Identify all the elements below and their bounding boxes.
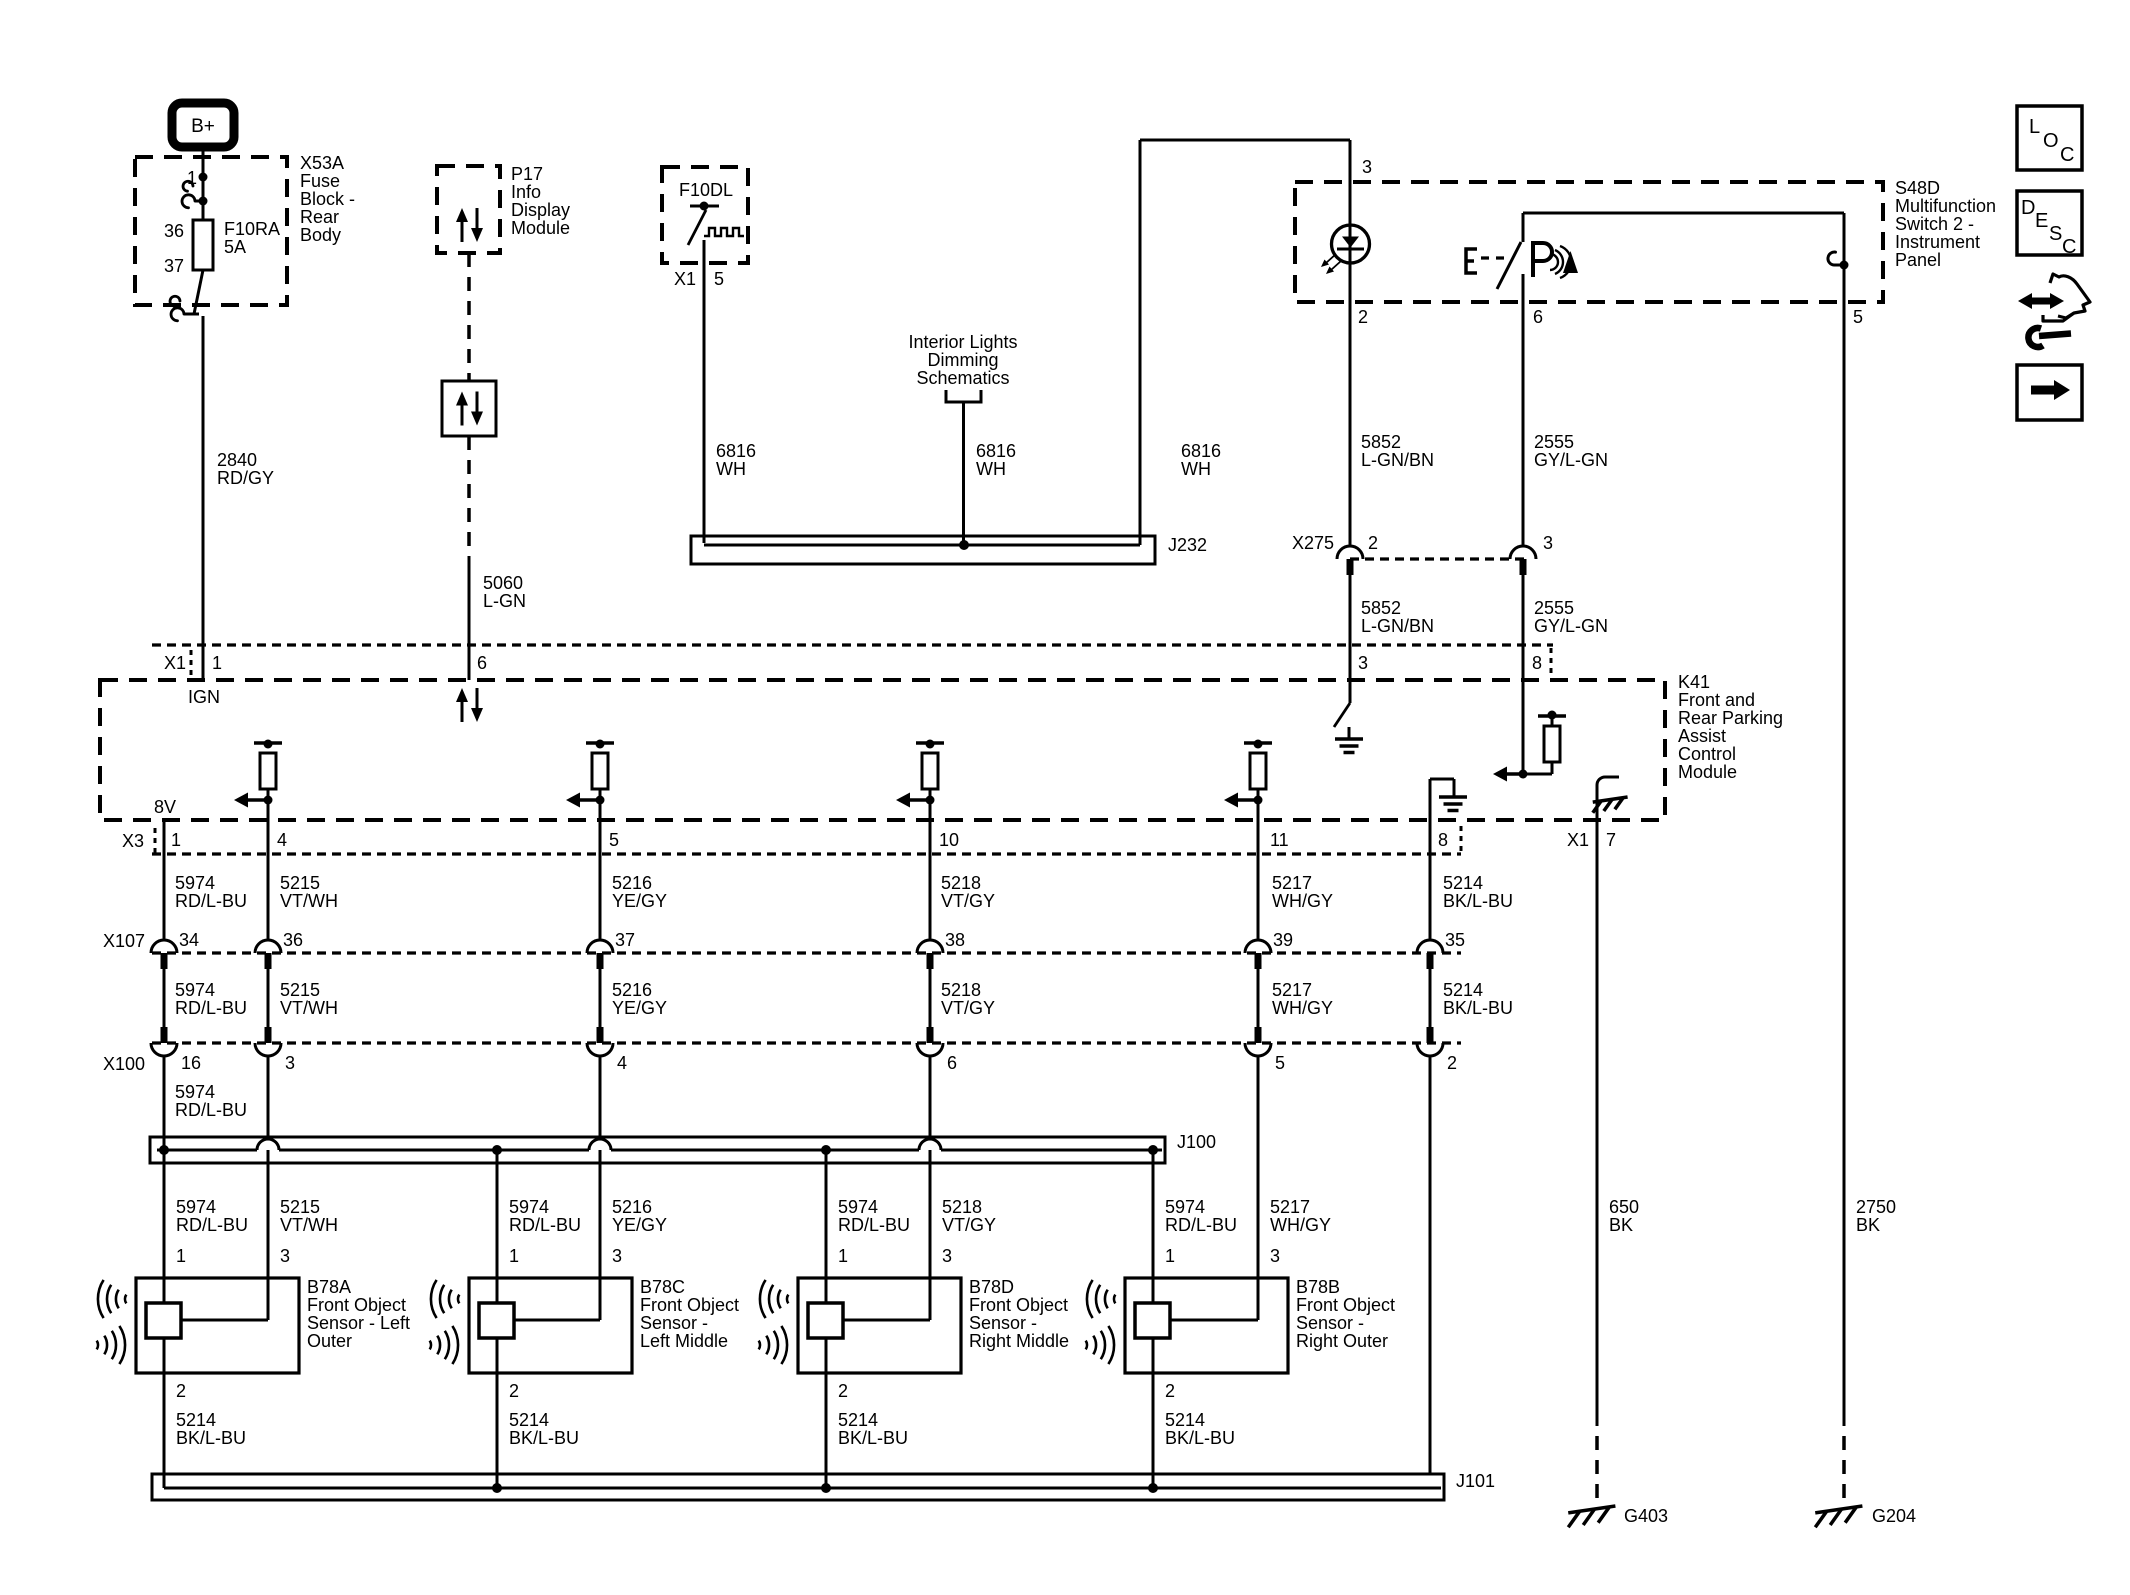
- svg-text:3: 3: [280, 1246, 290, 1266]
- svg-text:WH: WH: [976, 459, 1006, 479]
- svg-text:5217: 5217: [1272, 873, 1312, 893]
- svg-text:1: 1: [509, 1246, 519, 1266]
- svg-text:5214: 5214: [176, 1410, 216, 1430]
- svg-text:D: D: [2021, 197, 2035, 219]
- svg-text:BK: BK: [1856, 1215, 1880, 1235]
- svg-text:2: 2: [176, 1381, 186, 1401]
- svg-text:C: C: [2062, 236, 2076, 258]
- svg-text:L-GN/BN: L-GN/BN: [1361, 450, 1434, 470]
- svg-text:6: 6: [477, 653, 487, 673]
- svg-text:5: 5: [1275, 1053, 1285, 1073]
- svg-text:Front and: Front and: [1678, 690, 1755, 710]
- svg-text:Left Middle: Left Middle: [640, 1331, 728, 1351]
- svg-text:C: C: [2060, 144, 2074, 166]
- svg-text:6: 6: [1533, 307, 1543, 327]
- svg-text:5: 5: [1853, 307, 1863, 327]
- svg-text:YE/GY: YE/GY: [612, 998, 667, 1018]
- svg-text:5214: 5214: [838, 1410, 878, 1430]
- svg-text:8V: 8V: [154, 797, 176, 817]
- svg-text:O: O: [2043, 130, 2059, 152]
- svg-text:5974: 5974: [176, 1197, 216, 1217]
- svg-text:1: 1: [212, 653, 222, 673]
- svg-text:BK/L-BU: BK/L-BU: [176, 1428, 246, 1448]
- svg-text:2: 2: [509, 1381, 519, 1401]
- svg-text:39: 39: [1273, 930, 1293, 950]
- svg-text:X275: X275: [1292, 533, 1334, 553]
- svg-text:YE/GY: YE/GY: [612, 891, 667, 911]
- svg-text:7: 7: [1606, 830, 1616, 850]
- svg-text:5A: 5A: [224, 237, 246, 257]
- svg-text:5214: 5214: [509, 1410, 549, 1430]
- svg-text:35: 35: [1445, 930, 1465, 950]
- svg-text:Front Object: Front Object: [640, 1295, 739, 1315]
- svg-text:Interior Lights: Interior Lights: [908, 332, 1017, 352]
- svg-text:5214: 5214: [1165, 1410, 1205, 1430]
- svg-text:E: E: [2035, 210, 2048, 232]
- svg-text:Info: Info: [511, 182, 541, 202]
- svg-text:3: 3: [612, 1246, 622, 1266]
- svg-text:RD/L-BU: RD/L-BU: [838, 1215, 910, 1235]
- svg-text:Schematics: Schematics: [916, 368, 1009, 388]
- svg-text:X100: X100: [103, 1054, 145, 1074]
- svg-text:WH: WH: [716, 459, 746, 479]
- svg-text:2: 2: [1447, 1053, 1457, 1073]
- svg-text:VT/WH: VT/WH: [280, 998, 338, 1018]
- svg-text:B78D: B78D: [969, 1277, 1014, 1297]
- svg-text:WH/GY: WH/GY: [1272, 998, 1333, 1018]
- svg-text:3: 3: [1270, 1246, 1280, 1266]
- svg-text:37: 37: [615, 930, 635, 950]
- svg-text:RD/L-BU: RD/L-BU: [1165, 1215, 1237, 1235]
- svg-text:P17: P17: [511, 164, 543, 184]
- svg-text:X1: X1: [1567, 830, 1589, 850]
- svg-text:F10DL: F10DL: [679, 180, 733, 200]
- svg-text:Display: Display: [511, 200, 570, 220]
- svg-text:Body: Body: [300, 225, 341, 245]
- svg-text:2: 2: [1368, 533, 1378, 553]
- svg-text:Rear Parking: Rear Parking: [1678, 708, 1783, 728]
- svg-text:Switch 2 -: Switch 2 -: [1895, 214, 1974, 234]
- svg-text:Multifunction: Multifunction: [1895, 196, 1996, 216]
- svg-text:34: 34: [179, 930, 199, 950]
- svg-text:K41: K41: [1678, 672, 1710, 692]
- svg-text:S: S: [2049, 223, 2062, 245]
- svg-text:IGN: IGN: [188, 687, 220, 707]
- svg-text:2: 2: [1358, 307, 1368, 327]
- svg-text:6816: 6816: [976, 441, 1016, 461]
- svg-text:4: 4: [617, 1053, 627, 1073]
- svg-text:1: 1: [176, 1246, 186, 1266]
- svg-text:1: 1: [838, 1246, 848, 1266]
- svg-text:5852: 5852: [1361, 432, 1401, 452]
- svg-text:5974: 5974: [1165, 1197, 1205, 1217]
- svg-text:G204: G204: [1872, 1506, 1916, 1526]
- svg-text:BK/L-BU: BK/L-BU: [1443, 998, 1513, 1018]
- svg-text:WH: WH: [1181, 459, 1211, 479]
- svg-text:X1: X1: [164, 653, 186, 673]
- svg-text:1: 1: [171, 830, 181, 850]
- svg-text:5214: 5214: [1443, 873, 1483, 893]
- svg-text:5: 5: [609, 830, 619, 850]
- svg-text:5218: 5218: [941, 873, 981, 893]
- svg-text:5974: 5974: [175, 980, 215, 1000]
- svg-text:Outer: Outer: [307, 1331, 352, 1351]
- svg-text:L-GN/BN: L-GN/BN: [1361, 616, 1434, 636]
- svg-text:1: 1: [1165, 1246, 1175, 1266]
- svg-text:Block -: Block -: [300, 189, 355, 209]
- svg-text:Instrument: Instrument: [1895, 232, 1980, 252]
- svg-text:5215: 5215: [280, 1197, 320, 1217]
- svg-text:16: 16: [181, 1053, 201, 1073]
- svg-text:S48D: S48D: [1895, 178, 1940, 198]
- svg-text:Sensor -: Sensor -: [969, 1313, 1037, 1333]
- svg-text:Right Outer: Right Outer: [1296, 1331, 1388, 1351]
- svg-text:5974: 5974: [175, 1082, 215, 1102]
- svg-text:5974: 5974: [838, 1197, 878, 1217]
- svg-text:5217: 5217: [1272, 980, 1312, 1000]
- svg-text:8: 8: [1438, 830, 1448, 850]
- svg-text:2: 2: [838, 1381, 848, 1401]
- svg-text:X53A: X53A: [300, 153, 344, 173]
- svg-text:Right Middle: Right Middle: [969, 1331, 1069, 1351]
- svg-text:J232: J232: [1168, 535, 1207, 555]
- svg-text:VT/GY: VT/GY: [941, 891, 995, 911]
- svg-text:6816: 6816: [1181, 441, 1221, 461]
- svg-text:RD/L-BU: RD/L-BU: [175, 998, 247, 1018]
- svg-text:5218: 5218: [942, 1197, 982, 1217]
- svg-text:650: 650: [1609, 1197, 1639, 1217]
- svg-text:Front Object: Front Object: [969, 1295, 1068, 1315]
- svg-text:VT/GY: VT/GY: [941, 998, 995, 1018]
- svg-text:G403: G403: [1624, 1506, 1668, 1526]
- svg-text:5974: 5974: [509, 1197, 549, 1217]
- svg-text:J101: J101: [1456, 1471, 1495, 1491]
- svg-text:WH/GY: WH/GY: [1270, 1215, 1331, 1235]
- svg-text:8: 8: [1532, 653, 1542, 673]
- svg-text:6: 6: [947, 1053, 957, 1073]
- svg-text:Control: Control: [1678, 744, 1736, 764]
- svg-text:Dimming: Dimming: [927, 350, 998, 370]
- svg-text:2555: 2555: [1534, 598, 1574, 618]
- svg-text:L: L: [2029, 116, 2040, 138]
- svg-text:5218: 5218: [941, 980, 981, 1000]
- svg-text:B78A: B78A: [307, 1277, 351, 1297]
- svg-text:RD/GY: RD/GY: [217, 468, 274, 488]
- svg-text:VT/WH: VT/WH: [280, 891, 338, 911]
- svg-text:BK/L-BU: BK/L-BU: [509, 1428, 579, 1448]
- svg-text:BK/L-BU: BK/L-BU: [838, 1428, 908, 1448]
- svg-text:3: 3: [1362, 157, 1372, 177]
- svg-text:B+: B+: [191, 116, 215, 137]
- svg-text:Fuse: Fuse: [300, 171, 340, 191]
- svg-text:X3: X3: [122, 831, 144, 851]
- svg-text:Panel: Panel: [1895, 250, 1941, 270]
- svg-text:3: 3: [1543, 533, 1553, 553]
- svg-text:Front Object: Front Object: [1296, 1295, 1395, 1315]
- svg-text:Rear: Rear: [300, 207, 339, 227]
- svg-text:10: 10: [939, 830, 959, 850]
- svg-text:Sensor - Left: Sensor - Left: [307, 1313, 410, 1333]
- svg-text:Front Object: Front Object: [307, 1295, 406, 1315]
- svg-text:5974: 5974: [175, 873, 215, 893]
- svg-text:4: 4: [277, 830, 287, 850]
- svg-text:3: 3: [942, 1246, 952, 1266]
- svg-text:J100: J100: [1177, 1132, 1216, 1152]
- svg-text:F10RA: F10RA: [224, 219, 280, 239]
- svg-text:RD/L-BU: RD/L-BU: [175, 1100, 247, 1120]
- svg-text:2840: 2840: [217, 450, 257, 470]
- svg-text:5060: 5060: [483, 573, 523, 593]
- svg-text:2750: 2750: [1856, 1197, 1896, 1217]
- svg-text:36: 36: [164, 221, 184, 241]
- svg-text:VT/WH: VT/WH: [280, 1215, 338, 1235]
- svg-text:5216: 5216: [612, 980, 652, 1000]
- svg-text:Sensor -: Sensor -: [640, 1313, 708, 1333]
- svg-text:GY/L-GN: GY/L-GN: [1534, 450, 1608, 470]
- svg-text:B78B: B78B: [1296, 1277, 1340, 1297]
- svg-text:11: 11: [1270, 830, 1289, 850]
- svg-text:5: 5: [714, 269, 724, 289]
- svg-text:BK: BK: [1609, 1215, 1633, 1235]
- svg-text:5217: 5217: [1270, 1197, 1310, 1217]
- svg-text:X1: X1: [674, 269, 696, 289]
- svg-text:BK/L-BU: BK/L-BU: [1165, 1428, 1235, 1448]
- svg-text:36: 36: [283, 930, 303, 950]
- svg-text:YE/GY: YE/GY: [612, 1215, 667, 1235]
- svg-text:5214: 5214: [1443, 980, 1483, 1000]
- svg-text:RD/L-BU: RD/L-BU: [176, 1215, 248, 1235]
- svg-text:Module: Module: [1678, 762, 1737, 782]
- svg-text:B78C: B78C: [640, 1277, 685, 1297]
- svg-text:5216: 5216: [612, 873, 652, 893]
- svg-text:Module: Module: [511, 218, 570, 238]
- svg-text:3: 3: [285, 1053, 295, 1073]
- svg-text:X107: X107: [103, 931, 145, 951]
- svg-text:5215: 5215: [280, 873, 320, 893]
- svg-text:BK/L-BU: BK/L-BU: [1443, 891, 1513, 911]
- svg-text:2: 2: [1165, 1381, 1175, 1401]
- svg-text:6816: 6816: [716, 441, 756, 461]
- svg-text:GY/L-GN: GY/L-GN: [1534, 616, 1608, 636]
- svg-text:37: 37: [164, 256, 184, 276]
- svg-text:Assist: Assist: [1678, 726, 1726, 746]
- svg-text:RD/L-BU: RD/L-BU: [175, 891, 247, 911]
- svg-text:5852: 5852: [1361, 598, 1401, 618]
- svg-text:5216: 5216: [612, 1197, 652, 1217]
- svg-text:38: 38: [945, 930, 965, 950]
- svg-text:5215: 5215: [280, 980, 320, 1000]
- svg-text:2555: 2555: [1534, 432, 1574, 452]
- svg-text:3: 3: [1358, 653, 1368, 673]
- svg-text:WH/GY: WH/GY: [1272, 891, 1333, 911]
- svg-text:RD/L-BU: RD/L-BU: [509, 1215, 581, 1235]
- svg-text:Sensor -: Sensor -: [1296, 1313, 1364, 1333]
- svg-text:VT/GY: VT/GY: [942, 1215, 996, 1235]
- svg-text:L-GN: L-GN: [483, 591, 526, 611]
